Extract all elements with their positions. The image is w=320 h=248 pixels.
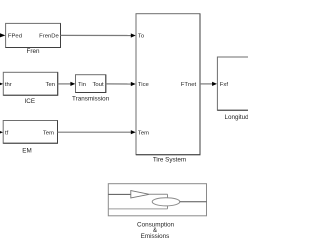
svg-text:Tice: Tice [138,82,150,88]
svg-text:Tout: Tout [92,82,103,88]
arrowhead at Tire System port To [131,33,136,37]
icon wire into gain (inside Consumption block) [108,193,131,195]
wire ICE to Transmission [58,83,72,85]
block Transmission [76,75,106,93]
svg-text:Longitudinal: Longitudinal [225,114,249,121]
svg-text:Tin: Tin [78,82,86,88]
arrowhead at Longitudinal input Fxf [212,82,217,86]
arrowhead at Transmission input Tin [70,82,75,86]
svg-text:Emissions: Emissions [141,233,170,240]
label Consumption & Emissions [137,221,175,240]
svg-text:Fxf: Fxf [220,82,229,88]
block Fren [6,23,61,47]
svg-text:Tem: Tem [43,130,54,136]
input arrow into ICE (clipped at image edge) [0,82,3,86]
wire Tire System to Longitudinal [200,83,213,85]
input arrow into Fren [0,33,5,37]
svg-text:thr: thr [5,82,12,88]
icon subsystem rectangle (inside Consumption block) [108,194,167,209]
arrowhead at Tire System port Tice [131,82,136,86]
input arrow into EM (clipped at image edge) [0,130,3,134]
icon output wire (inside Consumption block) [180,201,207,203]
svg-text:Ten: Ten [46,82,56,88]
svg-text:Transmission: Transmission [72,96,110,103]
svg-text:EM: EM [22,148,31,155]
svg-text:FTnet: FTnet [181,82,197,88]
svg-text:ICE: ICE [25,98,36,105]
block Tire System [136,14,200,155]
svg-text:tf: tf [5,130,9,136]
svg-text:Tire System: Tire System [153,157,186,164]
wire EM to Tire System port Tem [58,131,133,133]
icon gain triangle (inside Consumption block) [131,191,150,198]
icon ellipse (inside Consumption block) [152,198,180,206]
block Consumption & Emissions [108,184,206,216]
block Longitudinal (clipped at right image edge) [217,57,253,110]
block ICE [3,72,57,95]
svg-text:Tem: Tem [138,130,149,136]
svg-text:To: To [138,34,145,40]
wire Transmission to Tire System port Tice [106,83,132,85]
svg-text:FrenDe: FrenDe [39,34,59,40]
wire Fren to Tire System port To [61,34,133,36]
svg-text:Fren: Fren [27,48,40,55]
svg-text:FPed: FPed [8,34,22,40]
arrowhead at Tire System port Tem [131,130,136,134]
block EM [3,121,57,144]
